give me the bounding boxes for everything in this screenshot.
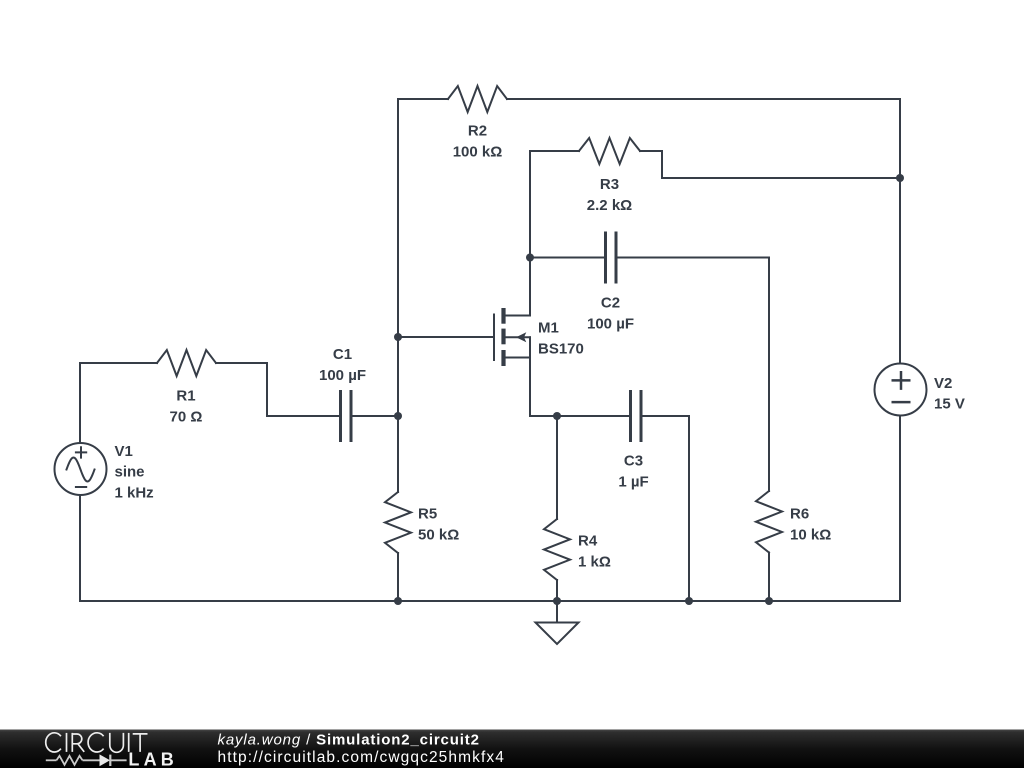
voltage source V2 circle — [875, 364, 927, 416]
svg-text:1 kΩ: 1 kΩ — [578, 553, 611, 570]
junction: source node — [553, 412, 561, 420]
wire: R3 left corner to left lead — [530, 150, 579, 152]
transistor M1 drain stub — [506, 315, 531, 317]
wire: right rail down from top corner to V2 — [899, 99, 901, 364]
svg-text:http://circuitlab.com/cwgqc25h: http://circuitlab.com/cwgqc25hmkfx4 — [218, 749, 505, 766]
transistor M1 channel bar top (drain) — [501, 308, 505, 324]
resistor R3 zigzag — [579, 138, 640, 164]
wire: C3 right vertical down to ground rail — [688, 416, 690, 601]
svg-text:R4: R4 — [578, 533, 598, 550]
resistor R5 zigzag — [385, 492, 411, 553]
resistor R2 zigzag — [448, 86, 507, 112]
wire: source corner to source node and C3 left plate — [530, 415, 630, 417]
wire: R5 top lead from C1 node — [397, 416, 399, 492]
svg-text:sine: sine — [115, 464, 145, 481]
wire: top-left corner to R1 left lead — [80, 362, 157, 364]
svg-text:1 µF: 1 µF — [618, 473, 648, 490]
wire: gate lead from rail to MOSFET gate — [398, 336, 493, 338]
junction: gate node — [394, 333, 402, 341]
transistor M1 body arrowhead — [516, 332, 526, 342]
V1 minus sign — [75, 486, 87, 488]
V1 sine waveform — [67, 458, 95, 482]
resistor R6 zigzag — [756, 491, 782, 553]
resistor R4 zigzag — [544, 519, 570, 580]
junction: ground rail node C — [685, 597, 693, 605]
logo letter R — [72, 733, 84, 752]
logo wire right — [110, 759, 126, 761]
wire: drain node to C2 left plate — [530, 257, 604, 259]
logo diode triangle — [100, 754, 111, 766]
logo letter U — [110, 733, 124, 752]
svg-text:R2: R2 — [468, 123, 487, 140]
wire: main vertical rail x=398 from R2 corner down through gate and C1 nodes — [397, 99, 399, 416]
logo resistor zigzag — [57, 756, 83, 765]
wire: R1 right lead to corner — [216, 362, 267, 364]
wire: V1 top lead up to corner — [79, 363, 81, 443]
ground symbol stem — [556, 601, 558, 623]
svg-text:V2: V2 — [934, 375, 952, 392]
svg-text:R1: R1 — [176, 388, 195, 405]
transistor M1 channel bar bottom (source) — [501, 350, 505, 366]
svg-text:100 kΩ: 100 kΩ — [453, 143, 503, 160]
svg-text:70 Ω: 70 Ω — [170, 408, 203, 425]
svg-text:15 V: 15 V — [934, 396, 965, 413]
junction: ground rail node B — [553, 597, 561, 605]
svg-text:R3: R3 — [600, 176, 619, 193]
wire: R3 output across to right rail node — [662, 177, 900, 179]
svg-text:R6: R6 — [790, 506, 809, 523]
logo letter I — [66, 733, 68, 752]
svg-text:kayla.wong / Simulation2_circu: kayla.wong / Simulation2_circuit2 — [218, 732, 480, 749]
capacitor C1 right plate — [350, 390, 353, 442]
wire: R2 corner to R2 left lead — [398, 98, 448, 100]
svg-text:10 kΩ: 10 kΩ — [790, 526, 831, 543]
logo letter T — [133, 734, 148, 752]
wire: corner down to C1 level — [266, 363, 268, 416]
wire: C2 right plate to right corner — [618, 257, 770, 259]
svg-text:M1: M1 — [538, 320, 559, 337]
junction: ground rail node D — [765, 597, 773, 605]
logo wire middle — [83, 759, 100, 761]
resistor R1 zigzag — [157, 350, 216, 376]
svg-text:BS170: BS170 — [538, 340, 584, 357]
wire: MOSFET body/source vertical down to source node level — [529, 337, 531, 416]
junction: drain node — [526, 254, 534, 262]
logo letter C2 — [88, 733, 104, 752]
transistor M1 body stub with arrow line — [506, 336, 531, 338]
svg-text:V1: V1 — [115, 443, 133, 460]
wire: bottom ground rail — [80, 600, 900, 602]
wire: R3 right lead — [640, 150, 662, 152]
svg-text:C2: C2 — [601, 295, 620, 312]
wire: V2 bottom lead to rail — [899, 416, 901, 602]
junction: C1 output node — [394, 412, 402, 420]
V1 plus sign — [75, 446, 87, 458]
svg-text:LAB: LAB — [128, 750, 178, 768]
svg-text:50 kΩ: 50 kΩ — [418, 526, 459, 543]
svg-text:100 µF: 100 µF — [587, 315, 634, 332]
transistor M1 gate line — [493, 314, 495, 362]
junction: supply node — [896, 174, 904, 182]
svg-text:1 kHz: 1 kHz — [115, 484, 154, 501]
svg-text:2.2 kΩ: 2.2 kΩ — [587, 197, 632, 214]
svg-text:R5: R5 — [418, 506, 437, 523]
wire: V1 bottom lead to rail — [79, 495, 81, 601]
transistor M1 source stub — [506, 357, 531, 359]
wire: R4 bottom lead to ground rail — [556, 580, 558, 601]
capacitor C3 left plate — [629, 390, 632, 442]
V2 minus sign — [892, 401, 911, 404]
transistor M1 channel bar middle (body) — [501, 329, 505, 345]
logo letter I2 — [128, 733, 130, 752]
capacitor C2 right plate — [615, 232, 618, 284]
junction: ground rail node A — [394, 597, 402, 605]
wire: corner to C1 left plate — [267, 415, 339, 417]
svg-text:C3: C3 — [624, 453, 643, 470]
capacitor C2 left plate — [604, 232, 607, 284]
wire: R5 bottom lead to ground rail — [397, 553, 399, 601]
logo resistor wire left — [46, 759, 57, 761]
wire: R4 top lead from source node — [556, 416, 558, 519]
wire: C3 right plate to corner — [643, 415, 690, 417]
ground symbol triangle — [536, 623, 579, 645]
svg-text:100 µF: 100 µF — [319, 367, 366, 384]
wire: C1 right plate to node — [353, 415, 399, 417]
svg-text:C1: C1 — [333, 346, 352, 363]
capacitor C3 right plate — [640, 390, 643, 442]
wire: R6 bottom lead to ground rail — [768, 553, 770, 602]
capacitor C1 left plate — [339, 390, 342, 442]
voltage source V1 circle — [55, 443, 107, 495]
V2 plus sign — [892, 371, 911, 390]
wire: R3 right corner jog down — [661, 151, 663, 178]
wire: R3 left vertical from R3 down to drain node and MOSFET drain — [529, 151, 531, 316]
CircuitLab logo letter C — [46, 733, 61, 752]
wire: R2 right lead across top to right rail — [507, 98, 900, 100]
wire: C2/R6 vertical down to R6 — [768, 258, 770, 492]
logo diode cathode bar — [109, 755, 111, 766]
